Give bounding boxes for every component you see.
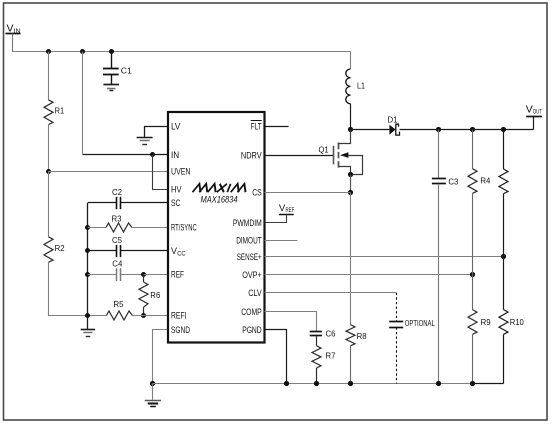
wire left bus vertical <box>87 203 89 329</box>
node OVP+ <box>470 272 475 277</box>
svg-text:CLV: CLV <box>248 288 262 298</box>
node top rail / R1 <box>46 49 51 54</box>
node UVEN <box>46 169 51 174</box>
svg-text:R10: R10 <box>510 317 524 327</box>
node REFI / R6 <box>141 313 146 318</box>
svg-text:OPTIONAL: OPTIONAL <box>405 319 435 328</box>
svg-text:SENSE+: SENSE+ <box>237 252 262 262</box>
svg-text:R1: R1 <box>55 106 65 116</box>
node SENSE+ <box>501 254 506 259</box>
svg-text:FLT: FLT <box>251 121 262 131</box>
terminal VREF <box>279 202 294 215</box>
node ground rail left <box>150 381 155 386</box>
resistor R4 <box>468 130 491 275</box>
svg-text:UVEN: UVEN <box>171 167 191 177</box>
resistor R9 <box>468 275 491 384</box>
node bus / RT-SYNC <box>85 225 90 230</box>
node top rail / C1 <box>109 49 114 54</box>
wire FLT stub <box>265 126 289 128</box>
wire VIN top rail <box>12 51 351 53</box>
svg-text:R6: R6 <box>150 290 160 300</box>
wire VOUT rail up to terminal <box>533 116 535 129</box>
svg-text:RT/SYNC: RT/SYNC <box>171 223 197 233</box>
capacitor C4 <box>88 259 144 282</box>
wire VREF to PWMDIM <box>265 214 287 223</box>
wire VIN terminal down <box>12 34 14 52</box>
resistor R8 <box>346 325 367 384</box>
wire L1 to switch node <box>350 104 352 130</box>
capacitor C7 OPTIONAL <box>389 293 435 384</box>
wire R1 top lead <box>48 52 50 100</box>
terminal VIN <box>6 24 21 35</box>
node Q1 source <box>348 172 353 177</box>
svg-text:Q1: Q1 <box>319 145 329 155</box>
wire COMP <box>265 312 317 332</box>
diode D1 <box>388 115 400 136</box>
svg-text:REFI: REFI <box>171 311 187 321</box>
svg-text:C4: C4 <box>112 259 122 269</box>
svg-text:REF: REF <box>171 270 184 280</box>
svg-text:R2: R2 <box>55 243 65 253</box>
capacitor C3 <box>432 130 459 384</box>
svg-text:C2: C2 <box>112 187 122 197</box>
svg-text:PWMDIM: PWMDIM <box>233 218 262 228</box>
wire R2 top lead <box>48 171 50 236</box>
wire REF to pin <box>144 274 169 276</box>
svg-text:R5: R5 <box>114 299 124 309</box>
node VOUT rail / LED column <box>501 127 506 132</box>
node ground rail / R7 <box>314 381 319 386</box>
wire node to D1 <box>351 129 390 131</box>
wire CS <box>265 192 351 194</box>
svg-text:V: V <box>171 246 177 256</box>
resistor R1 <box>44 100 64 125</box>
svg-text:R7: R7 <box>326 351 336 361</box>
resistor R7 <box>312 335 336 383</box>
inductor L1 <box>346 69 365 104</box>
wire R2 bottom to REFI row <box>49 262 107 315</box>
svg-text:LV: LV <box>171 121 180 131</box>
svg-text:C3: C3 <box>448 176 458 186</box>
wire CS node down to R8 <box>350 193 352 325</box>
node VOUT rail / C3 <box>436 127 441 132</box>
svg-text:NDRV: NDRV <box>241 151 262 161</box>
resistor R5 <box>107 299 144 320</box>
ground at left bus <box>81 330 95 337</box>
svg-text:R9: R9 <box>481 317 491 327</box>
wire VIN branch down to IN <box>82 52 84 155</box>
capacitor C2 <box>88 187 168 209</box>
node bus / VCC <box>85 248 90 253</box>
capacitor C1 <box>103 52 132 85</box>
svg-text:DIMOUT: DIMOUT <box>236 236 262 246</box>
wire D1 to VOUT rail <box>400 129 534 131</box>
wire rail corner down to L1 <box>350 52 352 70</box>
node CS <box>348 190 353 195</box>
ground at LV <box>137 126 168 144</box>
capacitor C6 <box>310 329 336 339</box>
wire CLV <box>265 292 397 294</box>
svg-text:CC: CC <box>177 250 186 257</box>
wire source to CS node <box>350 175 352 193</box>
svg-text:C1: C1 <box>121 66 132 76</box>
wire R1 to UVEN node <box>48 125 50 172</box>
wire SENSE+ <box>265 256 504 258</box>
node bus / REF <box>85 272 90 277</box>
wire IN to HV <box>153 155 169 190</box>
node IN / HV branch <box>150 152 155 157</box>
resistor R6 <box>139 275 160 316</box>
svg-text:R4: R4 <box>480 176 490 186</box>
svg-text:CS: CS <box>252 187 262 197</box>
node ground rail / C3 <box>436 381 441 386</box>
node switch <box>348 127 353 132</box>
svg-text:PGND: PGND <box>242 325 262 335</box>
resistor R2 <box>44 237 65 262</box>
wire IN <box>83 154 168 156</box>
wire NDRV to gate <box>265 155 334 157</box>
logo MAXIM <box>193 184 248 192</box>
svg-text:C6: C6 <box>326 329 336 339</box>
wire ground rail <box>153 383 473 385</box>
wire ground rail right black <box>473 383 504 385</box>
terminal VOUT <box>526 105 542 117</box>
capacitor C5 <box>88 235 168 257</box>
wire OVP+ <box>265 274 473 276</box>
wire PGND <box>265 330 287 384</box>
node bus / REFI <box>85 313 90 318</box>
wire DIMOUT stub <box>265 240 298 242</box>
svg-text:IN: IN <box>171 150 179 160</box>
svg-text:COMP: COMP <box>241 307 262 317</box>
wire REFI to pin <box>144 315 169 317</box>
svg-text:OUT: OUT <box>533 109 542 116</box>
svg-text:OVP+: OVP+ <box>242 270 262 280</box>
ground main <box>145 384 161 407</box>
wire SGND to ground <box>153 330 169 384</box>
svg-text:D1: D1 <box>388 115 398 125</box>
wire UVEN <box>48 171 168 173</box>
node ground rail / PGND <box>284 381 289 386</box>
svg-text:SGND: SGND <box>171 325 190 335</box>
op IC U1 MAX16834 <box>168 112 265 343</box>
node top rail / IN branch <box>80 49 85 54</box>
svg-text:C5: C5 <box>112 235 122 245</box>
node VOUT rail / R4 <box>470 127 475 132</box>
svg-text:REF: REF <box>286 207 295 214</box>
node ground rail / R8 <box>348 381 353 386</box>
node ground rail / R9 <box>470 381 475 386</box>
resistor LED string upper right <box>499 130 508 257</box>
svg-text:SC: SC <box>171 198 181 208</box>
resistor R10 <box>499 257 524 384</box>
svg-text:L1: L1 <box>357 81 365 91</box>
node REF / R6 <box>141 272 146 277</box>
transistor Q1 <box>319 130 363 175</box>
resistor R3 <box>88 214 168 232</box>
svg-text:MAX16834: MAX16834 <box>201 195 238 205</box>
svg-text:R8: R8 <box>357 331 367 341</box>
svg-text:HV: HV <box>171 185 182 195</box>
ground at C1 <box>103 85 119 91</box>
svg-text:R3: R3 <box>112 214 122 224</box>
